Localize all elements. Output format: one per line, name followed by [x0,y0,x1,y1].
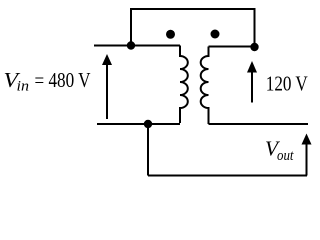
svg-text:= 480 V: = 480 V [35,68,91,92]
svg-text:120 V: 120 V [266,72,308,96]
svg-text:out: out [277,148,294,164]
svg-text:in: in [17,79,30,95]
